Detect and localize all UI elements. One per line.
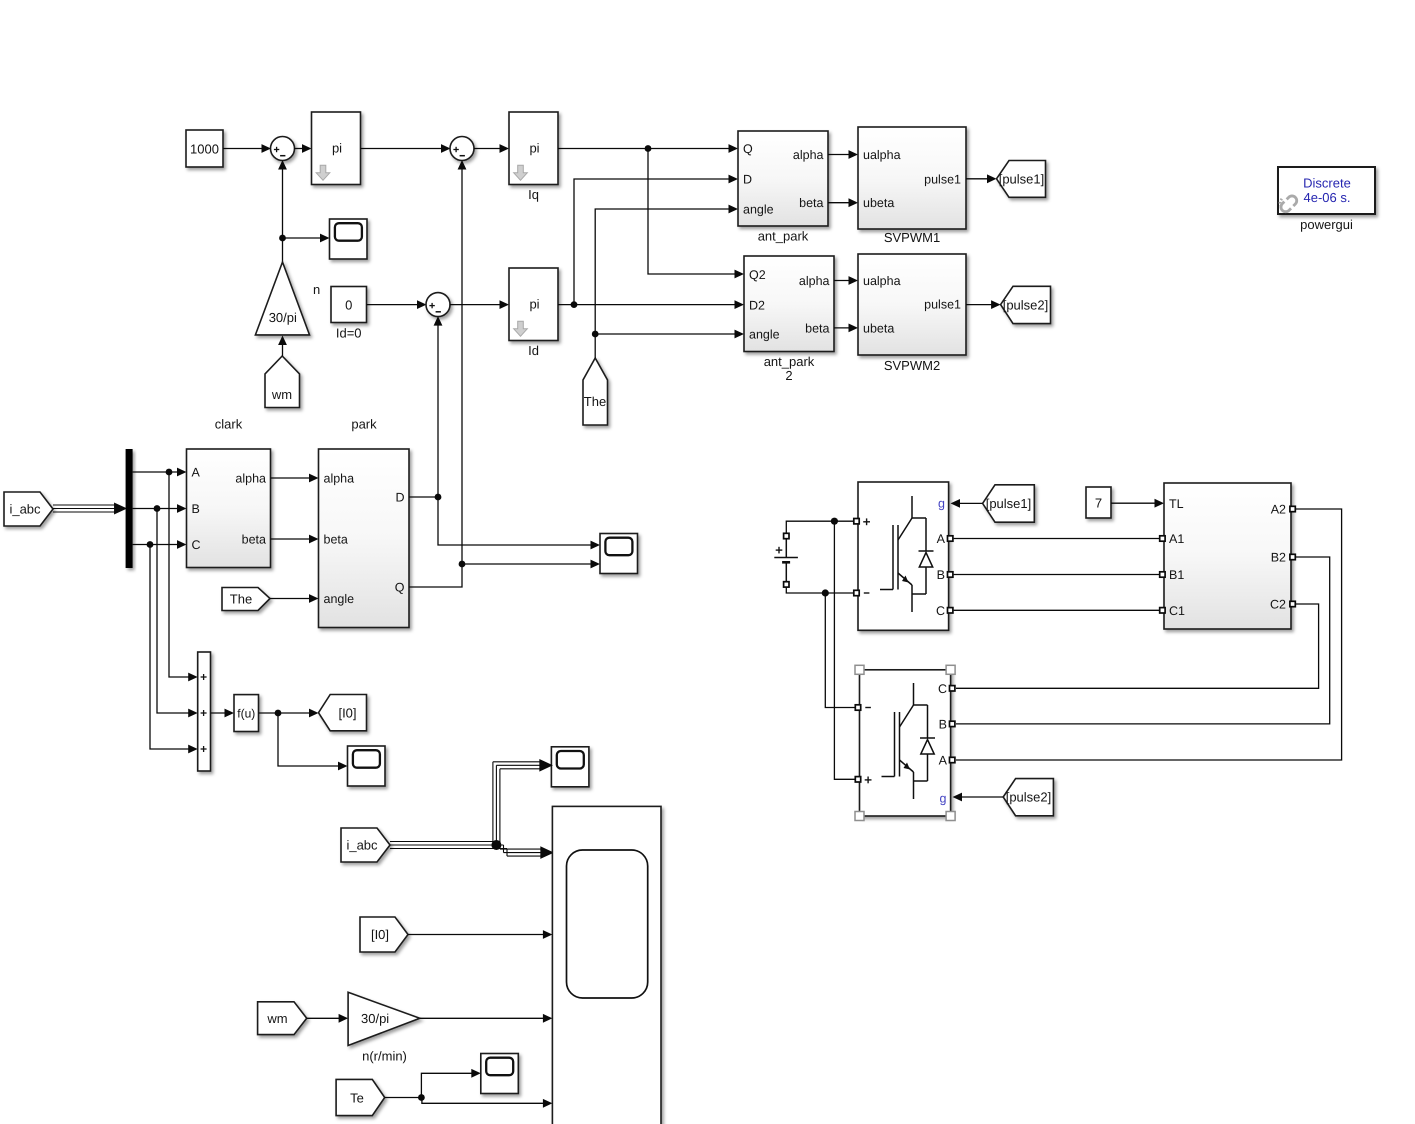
subsystem clark	[187, 417, 271, 568]
inverter bridge 2 (selected)	[855, 665, 955, 820]
wire dc- down to inverter2 minus	[825, 593, 855, 708]
constant block 0 (Id=0)	[331, 287, 367, 341]
svg-text:The: The	[230, 592, 252, 607]
svg-text:B1: B1	[1169, 568, 1184, 582]
svg-text:ubeta: ubeta	[863, 196, 894, 210]
svg-text:pulse1: pulse1	[924, 172, 961, 186]
wire S1 to PI speed	[294, 144, 312, 153]
svg-text:[I0]: [I0]	[371, 927, 389, 942]
wire park D output	[409, 497, 600, 549]
display scope block (large)	[552, 806, 661, 1124]
label n	[313, 282, 320, 297]
from tag The (vertical)	[583, 358, 608, 425]
wire junction down to ant_park2 Q2	[648, 149, 744, 279]
scope Scope4	[551, 747, 589, 787]
svg-text:wm: wm	[266, 1011, 287, 1026]
from tag The (park angle)	[222, 588, 270, 611]
wire inverter1 A to motor A1	[954, 538, 1161, 540]
wire ant_park beta to SVPWM1 ubeta	[828, 198, 858, 207]
svg-text:B: B	[939, 718, 947, 732]
svg-text:Id: Id	[528, 343, 539, 358]
svg-text:Q2: Q2	[749, 268, 766, 282]
wire park Q output	[409, 560, 600, 587]
svg-text:A: A	[937, 532, 946, 546]
svg-text:Id=0: Id=0	[336, 326, 362, 341]
demux (selector bar)	[126, 449, 133, 568]
svg-text:Q: Q	[743, 142, 753, 156]
svg-text:n(r/min): n(r/min)	[362, 1049, 407, 1064]
wire junction to Scope3	[278, 713, 348, 770]
wire wm to gain n(r/min)	[307, 1014, 348, 1023]
wire The up to angle ports	[595, 205, 738, 358]
svg-text:A2: A2	[1271, 503, 1286, 517]
svg-text:pi: pi	[529, 297, 539, 312]
wire motor C2 to inverter2 C	[956, 604, 1319, 688]
PI controller block Iq	[509, 112, 558, 202]
wire dc+ down to inverter2 plus	[834, 521, 855, 779]
motor block (dual three-phase machine)	[1160, 483, 1296, 629]
svg-text:angle: angle	[743, 203, 774, 217]
wire Id PI to ant_park2 D2	[558, 300, 744, 309]
input tag i_abc	[4, 492, 53, 526]
wire adder to f(u)	[211, 709, 235, 718]
PI controller block Id	[509, 268, 558, 358]
svg-text:A1: A1	[1169, 532, 1184, 546]
svg-text:D2: D2	[749, 299, 765, 313]
wire PI speed to sum S2	[361, 144, 451, 153]
wire Te junction to display block	[421, 1098, 552, 1108]
svg-text:angle: angle	[749, 328, 780, 342]
svg-text:n: n	[313, 282, 320, 297]
wire ant_park alpha to SVPWM1 ualpha	[828, 150, 858, 159]
svg-text:alpha: alpha	[793, 148, 824, 162]
junction node on The wire	[592, 331, 599, 338]
from tag [pulse2] (gate)	[1003, 779, 1053, 816]
svg-text:beta: beta	[805, 322, 829, 336]
svg-text:g: g	[938, 496, 945, 510]
junction node Te	[418, 1094, 425, 1101]
wire demux to clark B	[133, 504, 187, 513]
tap wire C to adder	[150, 545, 198, 754]
scope Scope1	[330, 219, 368, 259]
wire junction up to ant_park D	[574, 175, 738, 305]
svg-text:30/pi: 30/pi	[269, 310, 297, 325]
junction node after f(u)	[275, 710, 282, 717]
scope Scope5	[481, 1054, 519, 1094]
svg-text:i_abc: i_abc	[9, 502, 41, 517]
svg-text:park: park	[351, 417, 377, 432]
PI controller block (speed)	[312, 112, 361, 185]
junction node on A wire	[166, 469, 173, 476]
svg-text:pi: pi	[332, 141, 342, 156]
constant block 1000	[186, 130, 223, 167]
svg-text:beta: beta	[799, 196, 823, 210]
wire Te to junction	[385, 1097, 422, 1099]
wire 0 to sum S3	[367, 300, 427, 309]
dc voltage source	[774, 533, 798, 587]
wire motor A2 to inverter2 A	[956, 509, 1342, 760]
svg-text:ubeta: ubeta	[863, 322, 894, 336]
gain block 30/pi (speed)	[255, 262, 309, 335]
subsystem ant_park2	[744, 256, 834, 383]
wire junction to Scope1	[283, 234, 330, 243]
wire gain to display block	[420, 1014, 553, 1023]
svg-text:powergui: powergui	[1300, 217, 1353, 232]
from tag wm (bottom)	[258, 1002, 307, 1035]
constant block 7	[1086, 487, 1111, 518]
junction node dc-	[822, 589, 829, 596]
sum block S3	[426, 293, 450, 317]
wire S2 to PI Iq	[474, 144, 510, 153]
wire Iq to ant_park Q	[558, 144, 738, 153]
svg-text:f(u): f(u)	[237, 707, 255, 721]
junction node on D output	[435, 494, 442, 501]
svg-text:A: A	[939, 754, 948, 768]
svg-text:SVPWM1: SVPWM1	[884, 230, 940, 245]
wire SVPWM2 pulse1 to goto	[966, 300, 1001, 309]
svg-text:[pulse2]: [pulse2]	[1006, 790, 1052, 805]
svg-text:beta: beta	[324, 533, 348, 547]
svg-text:B: B	[937, 568, 945, 582]
from tag Te	[336, 1079, 385, 1115]
wire I0 to display block	[408, 930, 552, 939]
junction node on feedback	[279, 235, 286, 242]
function block f(u)	[234, 695, 259, 732]
gain block 30/pi n(r/min)	[348, 992, 420, 1063]
from tag wm (vertical)	[265, 356, 300, 408]
svg-text:C2: C2	[1270, 598, 1286, 612]
svg-text:4e-06 s.: 4e-06 s.	[1304, 190, 1351, 205]
wire Te junction to Scope5	[421, 1069, 480, 1098]
triple wire i_abc to demux	[53, 503, 126, 513]
wire ant_park2 alpha to SVPWM2 ualpha	[834, 276, 858, 285]
sum block S1	[271, 137, 295, 161]
svg-text:[pulse1]: [pulse1]	[986, 496, 1032, 511]
wire demux to clark A	[133, 468, 187, 477]
svg-text:C: C	[192, 538, 201, 552]
wire clark alpha to park alpha	[271, 474, 319, 483]
svg-text:ualpha: ualpha	[863, 274, 901, 288]
svg-text:[I0]: [I0]	[338, 706, 356, 721]
svg-text:Te: Te	[350, 1091, 364, 1106]
tap wire B to adder	[157, 509, 198, 718]
sum block S2	[450, 137, 474, 161]
junction node on Id wire	[571, 301, 578, 308]
svg-text:angle: angle	[324, 592, 355, 606]
wire pulse1 to inverter1 gate g	[951, 499, 983, 508]
from tag i_abc (bottom)	[341, 828, 390, 862]
junction node on B wire	[154, 505, 161, 512]
from tag [pulse1] (gate)	[983, 485, 1035, 522]
inverter bridge 1	[854, 482, 953, 630]
svg-text:ant_park: ant_park	[764, 354, 815, 369]
wire 7 to motor TL	[1111, 499, 1164, 508]
svg-text:clark: clark	[215, 417, 243, 432]
wire 1000 to sum S1	[223, 144, 271, 153]
subsystem park	[319, 417, 410, 628]
adder block (A+B+C)	[198, 652, 211, 771]
svg-text:Q: Q	[395, 581, 405, 595]
svg-text:The: The	[584, 394, 606, 409]
powergui block	[1275, 167, 1375, 232]
svg-text:ant_park: ant_park	[758, 229, 809, 244]
wire S3 to PI Id	[450, 300, 510, 309]
svg-text:0: 0	[345, 298, 352, 313]
svg-text:Discrete: Discrete	[1303, 175, 1351, 190]
junction node dc+	[831, 518, 838, 525]
wire clark beta to park beta	[271, 535, 319, 544]
svg-text:[pulse2]: [pulse2]	[1003, 298, 1049, 313]
svg-text:beta: beta	[242, 533, 266, 547]
wire junction to ant_park2 angle	[595, 330, 744, 339]
subsystem SVPWM2	[858, 254, 966, 373]
svg-text:alpha: alpha	[324, 472, 355, 486]
svg-text:g: g	[940, 791, 947, 805]
svg-text:D: D	[395, 491, 404, 505]
wire inverter1 C to motor C1	[954, 609, 1161, 611]
feedback wire park D to S3	[434, 316, 443, 497]
speed feedback wire gain to S1	[278, 160, 287, 262]
wire The to park angle	[270, 594, 319, 603]
svg-text:wm: wm	[271, 387, 292, 402]
svg-text:30/pi: 30/pi	[361, 1011, 389, 1026]
wire ant_park2 beta to SVPWM2 ubeta	[834, 324, 858, 333]
junction node on Iq wire	[645, 145, 652, 152]
svg-text:pi: pi	[529, 141, 539, 156]
svg-text:A: A	[192, 466, 201, 480]
scope Scope3	[348, 746, 386, 786]
junction node i_abc	[491, 840, 501, 850]
wire inverter1 B to motor B1	[954, 574, 1161, 576]
goto tag [I0]	[319, 695, 367, 731]
svg-text:B: B	[192, 502, 200, 516]
scope Scope2	[600, 534, 638, 574]
svg-text:B2: B2	[1271, 551, 1286, 565]
wire motor B2 to inverter2 B	[956, 557, 1330, 724]
svg-text:alpha: alpha	[235, 472, 266, 486]
goto tag [pulse1]	[997, 161, 1046, 198]
wire dc+ rail	[786, 521, 854, 533]
wire pulse2 to inverter2 gate g	[953, 793, 1004, 802]
goto tag [pulse2]	[1001, 286, 1051, 323]
svg-text:Iq: Iq	[528, 187, 539, 202]
wire SVPWM1 pulse1 to goto	[966, 174, 997, 183]
junction node on C wire	[147, 541, 154, 548]
triple wire i_abc to scope and display block	[390, 760, 552, 858]
wire f(u) to goto I0	[259, 709, 319, 718]
svg-text:2: 2	[785, 368, 792, 383]
feedback wire park Q to S2	[458, 160, 467, 564]
svg-text:alpha: alpha	[799, 274, 830, 288]
from tag [I0] (bottom)	[360, 917, 408, 952]
subsystem SVPWM1	[858, 127, 966, 245]
svg-text:D: D	[743, 173, 752, 187]
svg-text:[pulse1]: [pulse1]	[999, 172, 1045, 187]
svg-text:pulse1: pulse1	[924, 298, 961, 312]
wire demux to clark C	[133, 540, 187, 549]
svg-text:1000: 1000	[190, 142, 219, 157]
wire dc- rail	[786, 588, 854, 594]
svg-text:i_abc: i_abc	[346, 838, 378, 853]
svg-text:C: C	[936, 604, 945, 618]
svg-text:ualpha: ualpha	[863, 148, 901, 162]
tap wire A to adder	[169, 472, 198, 681]
junction node on Q output	[459, 561, 466, 568]
svg-text:SVPWM2: SVPWM2	[884, 358, 940, 373]
svg-text:TL: TL	[1169, 497, 1184, 511]
svg-text:C1: C1	[1169, 604, 1185, 618]
svg-text:C: C	[938, 682, 947, 696]
wire wm to gain	[278, 336, 287, 357]
svg-text:7: 7	[1095, 496, 1102, 511]
subsystem ant_park	[738, 131, 828, 244]
